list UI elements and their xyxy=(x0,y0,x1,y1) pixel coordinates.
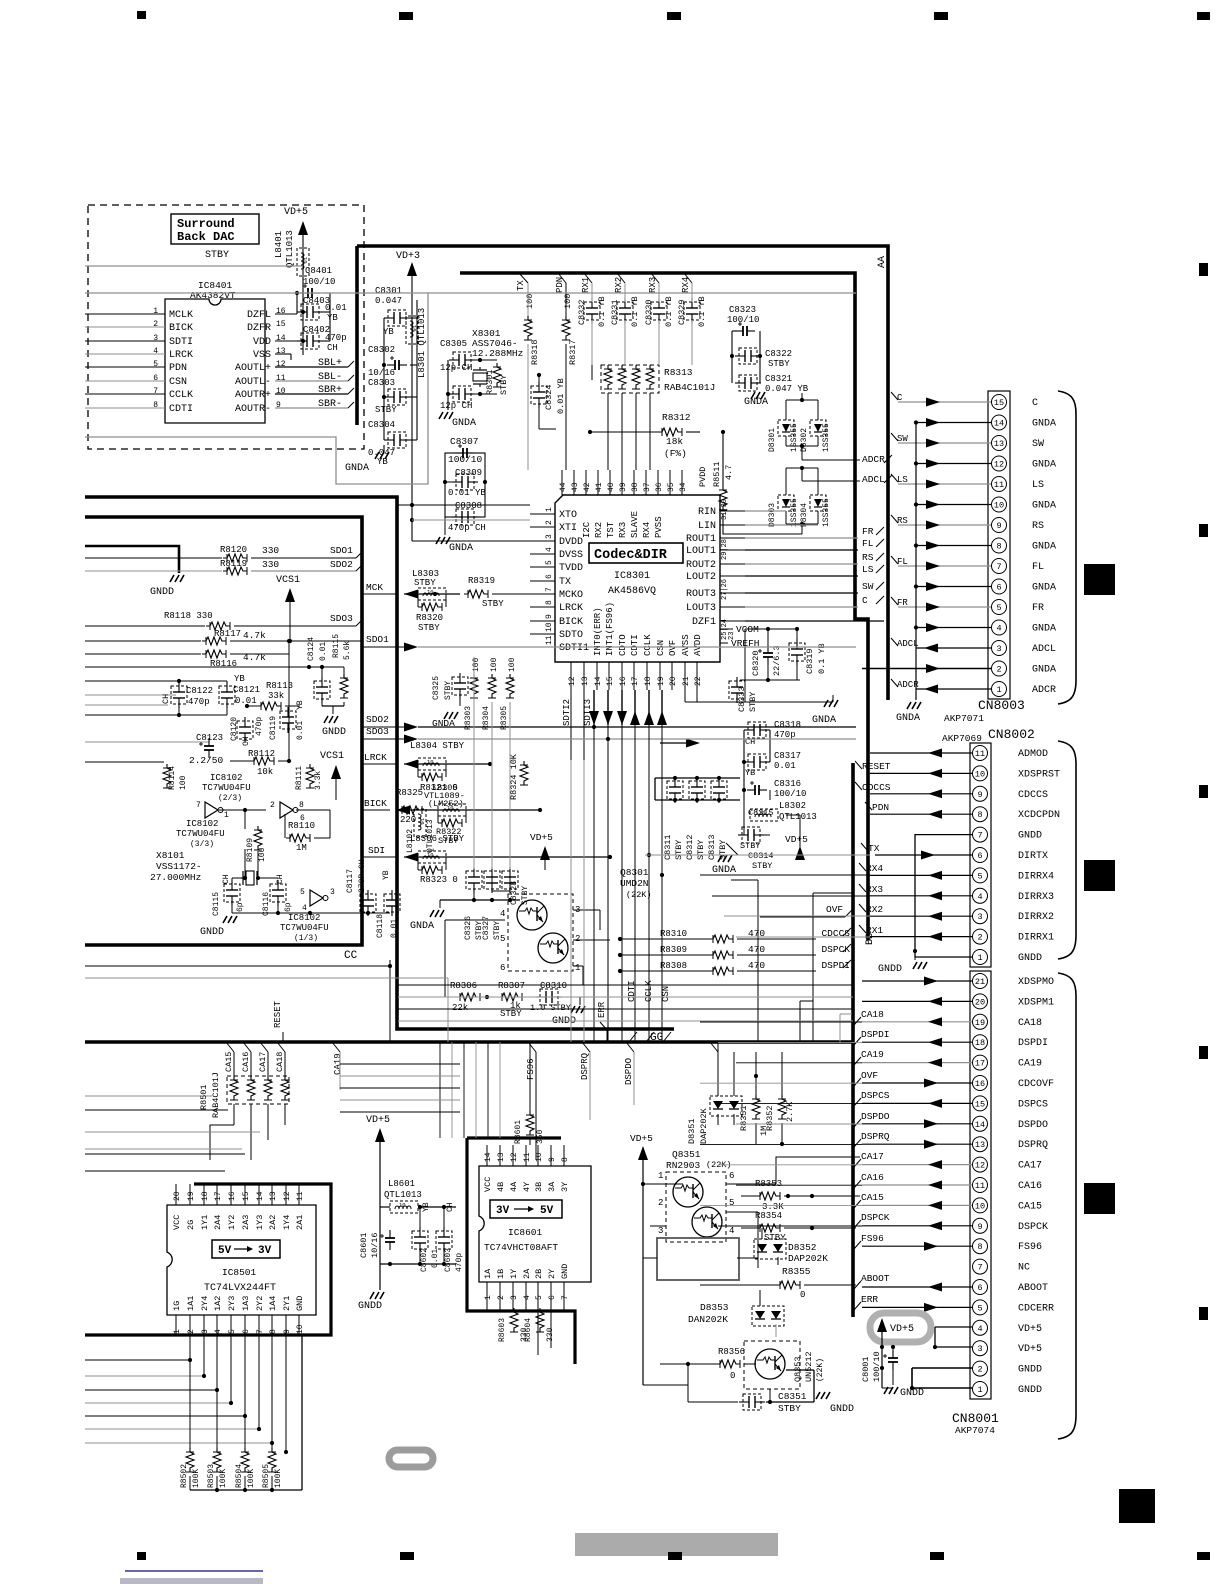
svg-text:10: 10 xyxy=(975,769,985,779)
svg-text:C8303: C8303 xyxy=(368,378,395,388)
svg-text:IC8102: IC8102 xyxy=(288,913,320,923)
wire thick IC8501 frame xyxy=(85,1184,331,1335)
print mark on caption bar xyxy=(668,1552,682,1560)
svg-text:CDCOVF: CDCOVF xyxy=(1018,1079,1054,1090)
svg-text:10: 10 xyxy=(419,818,426,825)
svg-text:2Y4: 2Y4 xyxy=(200,1296,210,1311)
svg-text:220: 220 xyxy=(400,815,416,825)
wire thick outer top AA xyxy=(357,246,888,700)
svg-text:L8301 QTL1013: L8301 QTL1013 xyxy=(417,308,427,378)
capacitor C8117 xyxy=(360,890,376,916)
svg-text:GND: GND xyxy=(295,1296,305,1311)
svg-text:VCS1: VCS1 xyxy=(276,575,300,586)
svg-text:GNDD: GNDD xyxy=(1018,831,1042,842)
svg-text:1B: 1B xyxy=(496,1269,506,1279)
capacitor C8603 xyxy=(436,1227,452,1253)
svg-text:10k: 10k xyxy=(257,767,273,777)
svg-text:FR: FR xyxy=(1032,603,1044,614)
svg-text:C8326: C8326 xyxy=(464,916,473,940)
svg-text:3A: 3A xyxy=(547,1181,557,1192)
svg-text:L8304 STBY: L8304 STBY xyxy=(410,741,465,751)
svg-text:C8307: C8307 xyxy=(450,436,479,447)
svg-text:FL: FL xyxy=(1032,562,1044,573)
svg-text:4: 4 xyxy=(500,909,505,919)
svg-text:GNDA: GNDA xyxy=(345,463,369,474)
svg-text:D8351: D8351 xyxy=(687,1118,697,1144)
wire vcom rails xyxy=(744,629,746,680)
svg-text:14: 14 xyxy=(594,676,603,686)
svg-text:GNDA: GNDA xyxy=(1032,542,1056,553)
wire IC8501 pin drops xyxy=(189,1335,191,1448)
svg-text:2Y1: 2Y1 xyxy=(282,1296,292,1311)
svg-text:7: 7 xyxy=(153,387,158,396)
svg-text:4: 4 xyxy=(302,904,307,913)
svg-text:1Y3: 1Y3 xyxy=(255,1215,265,1230)
svg-text:LS: LS xyxy=(1032,480,1044,491)
svg-text:BICK: BICK xyxy=(169,323,193,334)
svg-text:6: 6 xyxy=(548,1295,557,1300)
svg-text:FS96: FS96 xyxy=(1018,1242,1042,1253)
inductor L8102 xyxy=(414,809,426,837)
capacitor C8324 xyxy=(531,382,547,408)
svg-text:15: 15 xyxy=(975,1099,985,1109)
svg-text:R8318: R8318 xyxy=(530,339,540,365)
svg-text:11: 11 xyxy=(975,1181,985,1191)
svg-text:3: 3 xyxy=(996,644,1001,654)
svg-text:LOUT1: LOUT1 xyxy=(686,546,716,557)
svg-text:YB: YB xyxy=(745,768,755,778)
wire Q8353 down xyxy=(769,1389,771,1402)
svg-text:RX2: RX2 xyxy=(594,522,604,538)
svg-text:11: 11 xyxy=(545,635,554,645)
svg-text:27.000MHz: 27.000MHz xyxy=(150,872,201,883)
svg-text:31|30: 31|30 xyxy=(721,499,729,520)
svg-text:2G: 2G xyxy=(186,1220,196,1230)
svg-text:VD+5: VD+5 xyxy=(284,207,308,218)
svg-text:FR: FR xyxy=(897,598,908,608)
svg-text:R8309: R8309 xyxy=(660,945,687,955)
svg-text:100: 100 xyxy=(525,294,535,309)
svg-text:3V: 3V xyxy=(496,1205,510,1217)
svg-text:CA15: CA15 xyxy=(861,1192,884,1203)
svg-text:19: 19 xyxy=(975,1018,985,1028)
IC U8401 outline xyxy=(165,299,265,423)
svg-text:2Y3: 2Y3 xyxy=(227,1296,237,1311)
svg-text:RX3: RX3 xyxy=(648,277,658,293)
svg-text:C8122: C8122 xyxy=(186,686,213,696)
wire VSS net xyxy=(275,353,291,355)
svg-text:CCLK: CCLK xyxy=(643,634,653,656)
svg-text:DIRTX: DIRTX xyxy=(1018,851,1048,862)
svg-text:STBY: STBY xyxy=(740,841,760,851)
svg-text:16: 16 xyxy=(228,1191,237,1201)
svg-text:STBY: STBY xyxy=(375,405,397,415)
svg-text:33k: 33k xyxy=(268,691,284,701)
net RX4 flag top xyxy=(684,273,692,283)
svg-text:AKP7069: AKP7069 xyxy=(942,733,982,744)
svg-text:C8305: C8305 xyxy=(440,339,467,349)
svg-text:R8356: R8356 xyxy=(718,1347,745,1357)
ground GNDD (C8001) xyxy=(884,1387,898,1394)
svg-text:R8312: R8312 xyxy=(662,412,691,423)
svg-text:13: 13 xyxy=(269,1191,278,1201)
svg-text:10/16: 10/16 xyxy=(368,368,395,378)
svg-text:VCS1: VCS1 xyxy=(320,751,344,762)
svg-text:UMD2N: UMD2N xyxy=(620,878,649,889)
svg-text:LRCK: LRCK xyxy=(169,350,193,361)
svg-text:XTI: XTI xyxy=(559,523,577,534)
svg-text:4: 4 xyxy=(545,547,554,552)
svg-text:0.01: 0.01 xyxy=(390,919,399,938)
svg-text:10: 10 xyxy=(447,805,454,812)
svg-text:SW: SW xyxy=(1032,439,1044,450)
svg-text:8: 8 xyxy=(996,542,1001,552)
connector CN8001 wires xyxy=(862,980,972,982)
svg-text:18: 18 xyxy=(201,1191,210,1201)
svg-text:CH: CH xyxy=(276,874,285,884)
svg-text:SDO2: SDO2 xyxy=(330,559,353,570)
svg-text:1SS355: 1SS355 xyxy=(790,498,799,527)
svg-text:0.047: 0.047 xyxy=(375,296,402,306)
svg-text:C8312: C8312 xyxy=(685,834,695,860)
svg-text:4Y: 4Y xyxy=(522,1182,532,1192)
svg-text:3: 3 xyxy=(545,534,554,539)
svg-text:VD+5: VD+5 xyxy=(1018,1324,1042,1335)
svg-text:100/10: 100/10 xyxy=(303,277,335,287)
svg-text:R8352: R8352 xyxy=(765,1105,775,1131)
svg-text:100: 100 xyxy=(179,775,188,790)
svg-text:BICK: BICK xyxy=(559,617,583,628)
svg-text:2: 2 xyxy=(977,933,982,943)
svg-text:1M: 1M xyxy=(296,843,307,853)
svg-text:12: 12 xyxy=(975,1161,985,1171)
svg-text:5: 5 xyxy=(153,360,158,369)
diode D8352 xyxy=(754,1239,786,1259)
svg-text:DIRRX1: DIRRX1 xyxy=(1018,933,1054,944)
svg-text:8: 8 xyxy=(269,1329,278,1334)
svg-text:LOUT2: LOUT2 xyxy=(686,572,716,583)
svg-text:GNDA: GNDA xyxy=(1032,501,1056,512)
svg-text:2: 2 xyxy=(977,1365,982,1375)
svg-text:37: 37 xyxy=(643,482,652,492)
svg-text:R8110: R8110 xyxy=(288,821,315,831)
svg-text:ERR: ERR xyxy=(861,1294,878,1305)
svg-text:LRCK: LRCK xyxy=(364,752,387,763)
svg-text:CA16: CA16 xyxy=(1018,1181,1042,1192)
svg-text:2A3: 2A3 xyxy=(241,1215,251,1230)
wire codec left feeds xyxy=(412,504,530,506)
svg-text:43: 43 xyxy=(571,482,580,492)
svg-text:1: 1 xyxy=(575,963,580,973)
svg-text:1.0 STBY: 1.0 STBY xyxy=(530,1003,571,1013)
svg-text:DVSS: DVSS xyxy=(559,550,583,561)
resistor R8111 xyxy=(306,764,314,788)
svg-text:SDTO: SDTO xyxy=(559,630,583,641)
wire gray row 293 xyxy=(85,292,428,294)
svg-text:2A2: 2A2 xyxy=(268,1215,278,1230)
ground GNDD (C8351) xyxy=(816,1392,830,1399)
svg-text:22: 22 xyxy=(694,676,703,686)
svg-text:SDO3: SDO3 xyxy=(330,613,353,624)
svg-text:0.01: 0.01 xyxy=(774,761,796,771)
svg-text:7: 7 xyxy=(996,562,1001,572)
svg-text:100/10: 100/10 xyxy=(448,454,483,465)
svg-text:PVDD: PVDD xyxy=(698,467,708,487)
svg-text:R8109: R8109 xyxy=(246,838,255,862)
svg-text:8: 8 xyxy=(977,1242,982,1252)
IC8301 bottom pin stubs xyxy=(570,662,572,690)
svg-text:TST: TST xyxy=(606,521,616,538)
svg-text:DAN202K: DAN202K xyxy=(688,1314,728,1325)
svg-text:C8117: C8117 xyxy=(346,869,355,893)
svg-text:SBR+: SBR+ xyxy=(318,385,342,396)
svg-text:2: 2 xyxy=(575,934,580,944)
svg-text:100: 100 xyxy=(472,657,481,672)
print mark bottom row xyxy=(137,1552,146,1560)
svg-text:C8115: C8115 xyxy=(212,892,221,916)
svg-text:VD+5: VD+5 xyxy=(530,832,553,843)
print mark top row xyxy=(137,11,146,19)
wire right verticals xyxy=(757,880,759,1042)
svg-text:2: 2 xyxy=(497,1295,506,1300)
svg-text:DSPDI: DSPDI xyxy=(861,1029,890,1040)
svg-text:4A: 4A xyxy=(509,1181,519,1192)
svg-text:OVF: OVF xyxy=(668,640,678,656)
svg-text:QTL1013: QTL1013 xyxy=(384,1190,422,1200)
svg-text:1: 1 xyxy=(545,507,554,512)
svg-text:AK4586VQ: AK4586VQ xyxy=(608,586,656,597)
svg-text:2: 2 xyxy=(187,1329,196,1334)
IC U8501 outline xyxy=(167,1205,316,1315)
svg-text:GNDD: GNDD xyxy=(1018,1385,1042,1396)
svg-text:330: 330 xyxy=(262,559,279,570)
svg-text:C8603: C8603 xyxy=(444,1248,453,1272)
svg-text:3B: 3B xyxy=(534,1182,544,1192)
wire XDSPMO feed xyxy=(870,980,875,982)
svg-text:1A4: 1A4 xyxy=(268,1296,278,1311)
svg-text:40: 40 xyxy=(607,482,616,492)
svg-text:5: 5 xyxy=(535,1295,544,1300)
svg-text:1Y1: 1Y1 xyxy=(200,1215,210,1230)
svg-text:FL: FL xyxy=(897,557,908,567)
svg-text:R8118 330: R8118 330 xyxy=(164,611,213,621)
svg-text:0: 0 xyxy=(800,1290,805,1300)
svg-text:GNDA: GNDA xyxy=(712,865,736,876)
svg-text:VD+5: VD+5 xyxy=(1018,1344,1042,1355)
svg-text:RESET: RESET xyxy=(862,761,891,772)
bracket CN8002 xyxy=(1058,741,1076,959)
svg-text:CN8002: CN8002 xyxy=(988,727,1035,742)
svg-text:20: 20 xyxy=(975,997,985,1007)
svg-text:IC8501: IC8501 xyxy=(222,1267,257,1278)
resistor R8313 pack xyxy=(601,365,659,393)
svg-text:100: 100 xyxy=(490,657,499,672)
svg-text:GNDA: GNDA xyxy=(410,921,434,932)
dashed region Surround Back DAC xyxy=(88,205,364,449)
svg-text:GNDD: GNDD xyxy=(552,1016,576,1027)
svg-text:13: 13 xyxy=(975,1140,985,1150)
connector CN8003 wires xyxy=(898,401,991,403)
ground GNDA (C8314) xyxy=(718,855,732,862)
svg-text:R8353: R8353 xyxy=(755,1179,782,1189)
wire SBL SBR nets xyxy=(275,366,348,368)
svg-text:VSS: VSS xyxy=(253,350,271,361)
label Surround Back DAC box xyxy=(171,214,259,244)
svg-text:6: 6 xyxy=(996,583,1001,593)
svg-text:6: 6 xyxy=(545,574,554,579)
svg-text:CDTI: CDTI xyxy=(169,404,193,415)
svg-text:STBY: STBY xyxy=(752,861,772,871)
wire thick CC block xyxy=(85,517,362,945)
ground GNDA (C8322) xyxy=(751,392,765,399)
svg-text:GNDD: GNDD xyxy=(1018,1365,1042,1376)
svg-text:Q8301: Q8301 xyxy=(620,867,649,878)
svg-text:RAB4C101J: RAB4C101J xyxy=(664,382,715,393)
svg-text:C8121: C8121 xyxy=(233,685,260,695)
svg-text:5: 5 xyxy=(545,560,554,565)
svg-text:10: 10 xyxy=(276,387,286,396)
svg-text:GNDA: GNDA xyxy=(1032,665,1056,676)
svg-text:17: 17 xyxy=(975,1059,985,1069)
bracket CN8001 xyxy=(1058,973,1076,1439)
svg-text:Back DAC: Back DAC xyxy=(177,230,235,244)
svg-text:0.1 YB: 0.1 YB xyxy=(664,296,674,327)
svg-text:22k: 22k xyxy=(452,1003,468,1013)
svg-text:DSPCS: DSPCS xyxy=(861,1090,890,1101)
ground GNDA (C8307) xyxy=(444,517,446,535)
wire mid verticals gray xyxy=(570,760,572,1042)
svg-text:D8352: D8352 xyxy=(788,1242,817,1253)
svg-text:14: 14 xyxy=(994,419,1004,429)
svg-text:GNDD: GNDD xyxy=(830,1404,854,1415)
svg-text:C8310: C8310 xyxy=(540,981,567,991)
svg-text:6: 6 xyxy=(977,851,982,861)
svg-text:DZF1: DZF1 xyxy=(692,617,716,628)
svg-text:1Y: 1Y xyxy=(509,1269,519,1279)
wire ERR slant xyxy=(606,1030,608,1042)
svg-text:1: 1 xyxy=(173,1329,182,1334)
svg-text:0.1 YB: 0.1 YB xyxy=(817,643,827,674)
svg-text:RX1: RX1 xyxy=(866,925,883,936)
svg-text:C8322: C8322 xyxy=(765,349,792,359)
svg-text:C8331: C8331 xyxy=(610,299,620,325)
svg-text:Codec&DIR: Codec&DIR xyxy=(594,548,668,563)
capacitor C8319 xyxy=(789,639,805,665)
svg-text:Q8353: Q8353 xyxy=(793,1356,803,1382)
svg-text:ROUT1: ROUT1 xyxy=(686,534,716,545)
svg-text:INT1(FS96): INT1(FS96) xyxy=(605,602,615,656)
svg-text:GNDA: GNDA xyxy=(744,397,768,408)
svg-text:R8325: R8325 xyxy=(396,788,423,798)
svg-text:MCK: MCK xyxy=(366,582,383,593)
svg-text:10: 10 xyxy=(296,1324,305,1334)
svg-text:VDD: VDD xyxy=(253,337,271,348)
gray caption bar bottom xyxy=(575,1533,778,1556)
svg-text:9: 9 xyxy=(545,614,554,619)
svg-text:8: 8 xyxy=(561,1157,570,1162)
svg-text:YB: YB xyxy=(296,700,305,710)
wire C830x right rail xyxy=(410,317,417,319)
svg-text:STBY: STBY xyxy=(674,840,684,860)
svg-text:0: 0 xyxy=(730,1371,735,1381)
svg-text:GNDA: GNDA xyxy=(1032,583,1056,594)
svg-text:0.01: 0.01 xyxy=(296,721,305,740)
svg-text:8: 8 xyxy=(545,600,554,605)
svg-text:GNDA: GNDA xyxy=(452,418,476,429)
svg-text:11: 11 xyxy=(994,480,1004,490)
wire Q8301 nets xyxy=(444,920,446,997)
svg-text:1: 1 xyxy=(153,307,158,316)
svg-text:1SS355: 1SS355 xyxy=(790,423,799,452)
svg-text:DIRRX3: DIRRX3 xyxy=(1018,892,1054,903)
svg-text:C8330: C8330 xyxy=(644,299,654,325)
svg-text:7: 7 xyxy=(977,831,982,841)
svg-text:1: 1 xyxy=(977,1385,982,1395)
svg-text:12: 12 xyxy=(568,676,577,686)
svg-text:RS: RS xyxy=(897,516,908,526)
wire DAC vdd rail xyxy=(302,300,304,355)
svg-text:5V: 5V xyxy=(540,1205,554,1217)
svg-text:2Y: 2Y xyxy=(547,1269,557,1279)
svg-text:10: 10 xyxy=(994,501,1004,511)
svg-text:3: 3 xyxy=(658,1226,663,1236)
wire thick outer left drop xyxy=(355,246,359,425)
svg-text:GNDD: GNDD xyxy=(358,1301,382,1312)
wire long row 667 xyxy=(85,666,322,668)
svg-text:AOUTR-: AOUTR- xyxy=(235,404,271,415)
svg-text:C8602: C8602 xyxy=(420,1248,429,1272)
svg-text:19: 19 xyxy=(657,676,666,686)
svg-text:R8306: R8306 xyxy=(450,981,477,991)
svg-text:3: 3 xyxy=(977,1344,982,1354)
svg-text:34: 34 xyxy=(679,482,688,492)
svg-text:4: 4 xyxy=(977,1324,982,1334)
svg-text:STBY: STBY xyxy=(205,250,229,261)
svg-text:TC7WU04FU: TC7WU04FU xyxy=(202,783,251,793)
svg-text:R8117: R8117 xyxy=(214,629,241,639)
capacitor C8316 xyxy=(747,781,767,795)
svg-text:DSPCS: DSPCS xyxy=(1018,1099,1048,1110)
inductor L8301 xyxy=(406,316,418,344)
IC8401 left pins xyxy=(85,313,165,315)
capacitor C8602 xyxy=(412,1227,428,1253)
svg-text:YB: YB xyxy=(382,870,391,880)
svg-text:10: 10 xyxy=(427,759,434,766)
svg-text:RESET: RESET xyxy=(273,1000,283,1028)
svg-text:XCDCPDN: XCDCPDN xyxy=(1018,810,1060,821)
svg-text:RX3: RX3 xyxy=(866,884,883,895)
wire CN8003 gnd rail xyxy=(915,422,917,689)
svg-text:4.7: 4.7 xyxy=(724,465,734,480)
svg-text:3: 3 xyxy=(510,1295,519,1300)
svg-text:C8332: C8332 xyxy=(577,299,587,325)
svg-text:R8354: R8354 xyxy=(755,1211,782,1221)
svg-text:X8101: X8101 xyxy=(156,850,185,861)
svg-text:RS: RS xyxy=(1032,521,1044,532)
svg-text:2: 2 xyxy=(545,520,554,525)
capacitor C8116 xyxy=(270,880,286,906)
wire gnd stub thick xyxy=(85,546,179,573)
svg-text:ADCL: ADCL xyxy=(862,474,885,485)
svg-text:CA18: CA18 xyxy=(861,1009,884,1020)
svg-text:R8501: R8501 xyxy=(199,1084,209,1110)
svg-text:PDN: PDN xyxy=(169,363,187,374)
svg-text:XDSPM1: XDSPM1 xyxy=(1018,997,1054,1008)
svg-text:R8310: R8310 xyxy=(660,929,687,939)
wire gate nets xyxy=(219,809,266,811)
svg-text:SDTI: SDTI xyxy=(169,337,193,348)
svg-text:0.01 YB: 0.01 YB xyxy=(448,488,486,498)
